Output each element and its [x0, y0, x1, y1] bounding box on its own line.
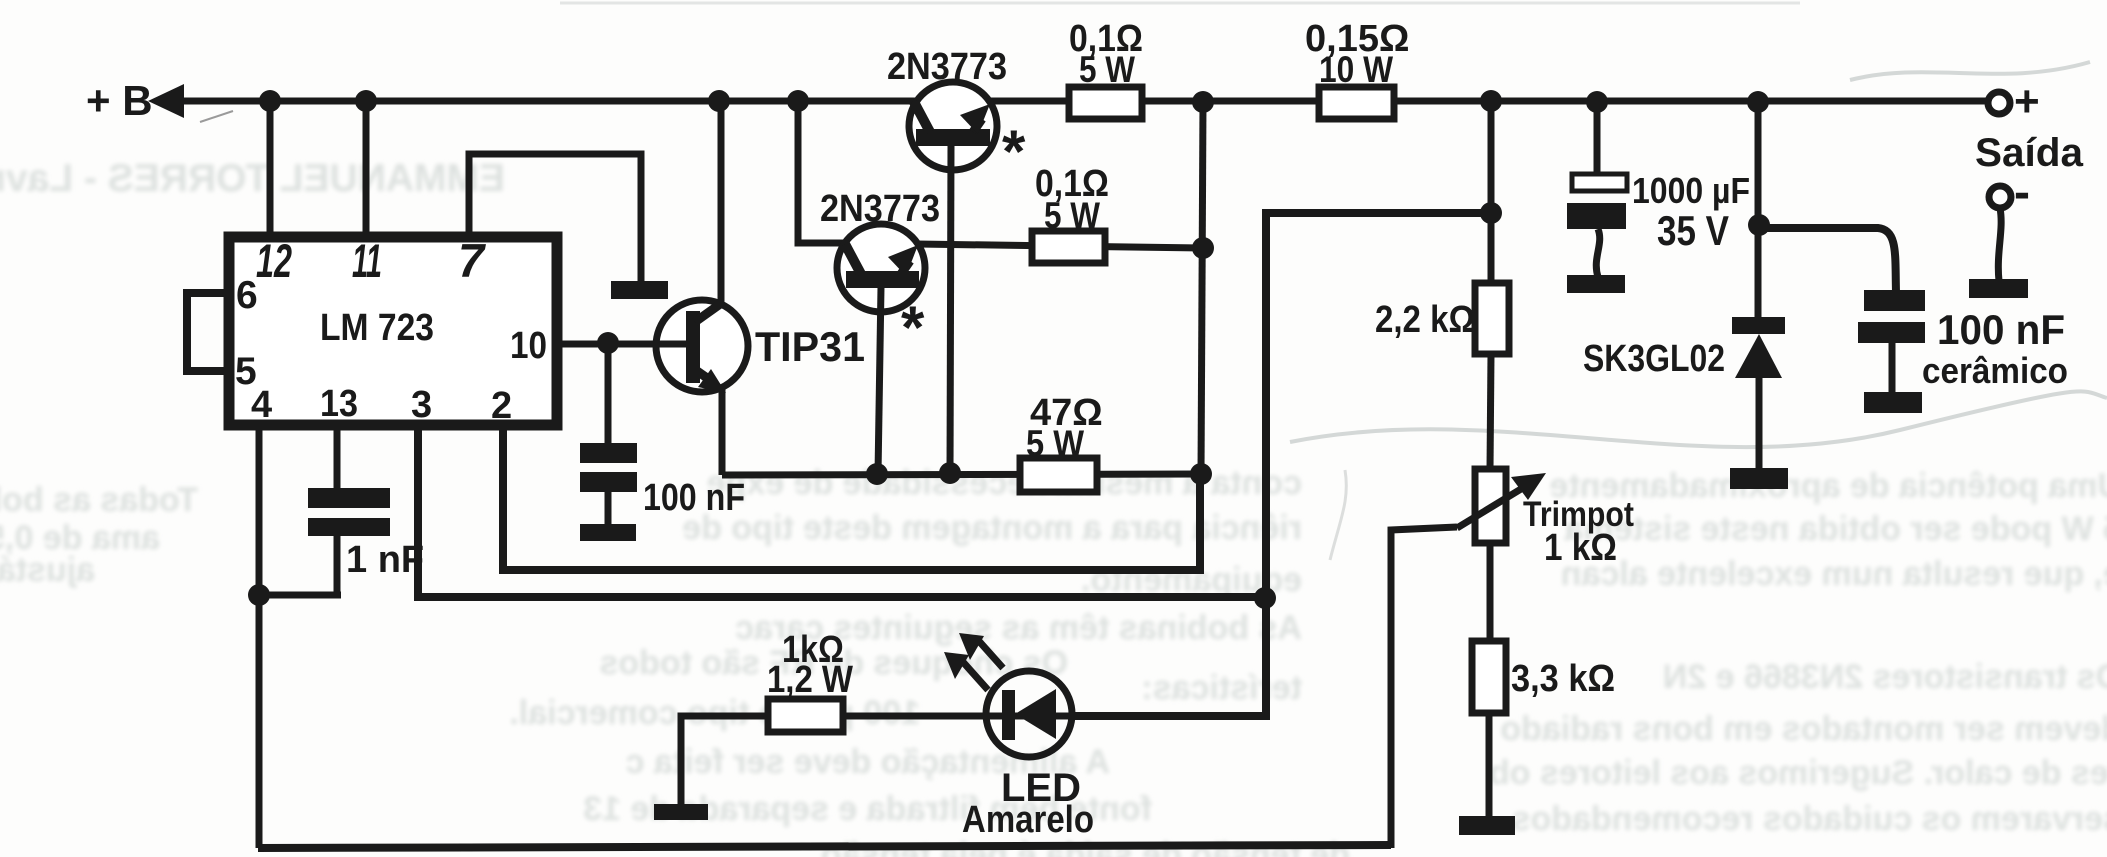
svg-text:riência para a montagem deste: riência para a montagem deste tipo de	[682, 509, 1302, 547]
svg-text:+ B: + B	[86, 77, 153, 124]
transistor Q2 2N3773 (lower)	[820, 188, 940, 361]
resistor 0,1 ohm 5W (lower)	[1032, 231, 1105, 263]
wire Q1 base drop	[950, 145, 951, 473]
svg-text:1 kΩ: 1 kΩ	[1544, 527, 1617, 569]
svg-text:35 V: 35 V	[1657, 207, 1729, 254]
svg-text:13: 13	[320, 383, 358, 425]
svg-text:3: 3	[411, 384, 432, 426]
wire Q2 collector feed	[798, 101, 846, 243]
wire ceramic cap branch	[1759, 228, 1896, 292]
node +B arrow	[148, 84, 184, 118]
node junction rail/1000uF	[1586, 91, 1608, 113]
wire pin5-pin6 loop	[187, 293, 224, 371]
ground (C4)	[1864, 392, 1922, 413]
ground (pin 7)	[611, 281, 668, 299]
node junction 2,2k/lineB	[1480, 202, 1502, 224]
wire pin4 to C2	[259, 592, 341, 599]
wire 2,2k top lead	[1488, 101, 1495, 283]
node junction TIP31 collector/rail	[708, 90, 730, 112]
svg-text:5 W: 5 W	[1026, 423, 1084, 464]
wire C1 bottom lead	[605, 492, 612, 526]
resistor 0,15 ohm 10W	[1319, 87, 1394, 119]
svg-text:ajustável.: ajustável.	[0, 551, 95, 589]
svg-text:2N3773: 2N3773	[887, 46, 1007, 88]
wire pin 7 to ground	[469, 154, 641, 283]
wire 2,2k to trimpot	[1490, 354, 1491, 469]
wire TIP31 collector riser	[718, 101, 725, 303]
svg-text:4: 4	[251, 384, 272, 426]
wire pin 2 sense	[503, 425, 1200, 570]
svg-text:*: *	[1002, 118, 1026, 185]
svg-text:1000 µF: 1000 µF	[1632, 170, 1750, 211]
wire 47ohm row	[722, 474, 1201, 475]
wire: top +B rail	[158, 98, 1988, 105]
svg-text:5 W pode ser obtida neste sist: 5 W pode ser obtida neste sistema	[1564, 510, 2107, 548]
svg-text:EMMANUEL TORRES - Lavras - M: EMMANUEL TORRES - Lavras - M	[0, 157, 505, 200]
wire C3 bottom lead	[1596, 229, 1599, 277]
wire pin 4 drop	[256, 425, 263, 848]
diode D1 SK3GL02	[1583, 317, 1785, 380]
resistor 2,2 kohm	[1475, 283, 1509, 354]
wire 1000uF top lead	[1594, 102, 1601, 176]
svg-text:TIP31: TIP31	[755, 323, 865, 370]
svg-text:5 W: 5 W	[1044, 195, 1100, 236]
svg-text:res de calor. Sugerimos aos le: res de calor. Sugerimos aos leitores ob	[1489, 754, 2107, 792]
wire line B	[1074, 213, 1491, 716]
wire output - lead	[1998, 208, 2001, 281]
svg-text:2,2 kΩ: 2,2 kΩ	[1375, 299, 1475, 341]
ground (LED branch)	[654, 804, 708, 820]
svg-text:e, que resulta num excelente a: e, que resulta num excelente alcan	[1561, 555, 2107, 593]
svg-text:11: 11	[352, 234, 382, 287]
ground (diode)	[1730, 468, 1788, 489]
node junction Q1 base/47 row	[939, 462, 961, 484]
wire LED branch left	[681, 716, 768, 804]
wire TIP31 emitter drop	[719, 389, 726, 475]
wire C4 bottom lead	[1889, 343, 1896, 394]
svg-text:-: -	[2014, 166, 2030, 219]
node junction rail/2,2k	[1480, 90, 1502, 112]
svg-text:*: *	[901, 294, 925, 361]
resistor 47 ohm 5W	[1020, 458, 1097, 492]
capacitor C4 100 nF ceramic	[1864, 290, 1925, 311]
svg-text:conta a mesma necessidade de e: conta a mesma necessidade de expe	[707, 464, 1302, 502]
capacitor C2 1 nF	[308, 488, 390, 508]
wire bottom rail	[258, 845, 1391, 848]
faint scan scratches	[1290, 391, 2107, 447]
resistor 3,3 kohm	[1472, 641, 1506, 713]
wire diode to ground	[1756, 378, 1763, 470]
LED D2 amarelo	[944, 633, 1094, 841]
ground (output)	[1969, 279, 2028, 298]
svg-text:100 nF: 100 nF	[1937, 306, 2065, 353]
svg-text:Amarelo: Amarelo	[962, 799, 1094, 841]
svg-text:SK3GL02: SK3GL02	[1583, 338, 1725, 380]
wire line A vertical	[1201, 102, 1203, 474]
wire C2 bottom lead	[334, 536, 341, 595]
node junction pin12/rail	[259, 90, 281, 112]
svg-text:LM 723: LM 723	[320, 307, 434, 349]
svg-text:3,3 kΩ: 3,3 kΩ	[1511, 658, 1615, 700]
op-amp U1 LM 723 box	[229, 237, 557, 425]
svg-text:+: +	[2014, 77, 2040, 126]
svg-text:1 nF: 1 nF	[346, 539, 424, 581]
resistor 0,1 ohm 5W (upper)	[1069, 87, 1142, 119]
wire pin 3 sense	[418, 425, 1265, 597]
node junction lineB/pin3	[1254, 587, 1276, 609]
svg-text:5 W: 5 W	[1079, 49, 1135, 90]
wire Q2 emitter row	[917, 244, 1203, 248]
node output + terminal	[1988, 92, 2010, 114]
svg-text:6: 6	[236, 274, 258, 317]
node junction pin4/C2	[248, 584, 270, 606]
svg-text:cerâmico: cerâmico	[1922, 350, 2068, 391]
node junction pin11/rail	[355, 90, 377, 112]
wire Q2 base drop	[878, 287, 881, 474]
svg-text:100 nF: 100 nF	[643, 477, 745, 519]
svg-text:10 W: 10 W	[1319, 49, 1393, 90]
node junction rail/diode	[1747, 91, 1769, 113]
wire trimpot wiper riser	[1391, 527, 1457, 848]
wire pin 12 riser	[267, 101, 274, 235]
transistor Q3 TIP31	[654, 300, 865, 393]
wire trimpot to 3,3k	[1487, 543, 1494, 641]
svg-text:Todas as bobinas são enroladas: Todas as bobinas são enroladas	[0, 481, 198, 519]
node junction pin10/C1	[597, 332, 619, 354]
node output - terminal	[1989, 186, 2011, 208]
wire pin 13 lead	[334, 425, 341, 490]
svg-text:devem ser montados em bons rad: devem ser montados em bons radiado	[1500, 710, 2107, 748]
wire 1k to LED	[843, 713, 1266, 720]
capacitor C1 100 nF	[580, 443, 637, 463]
ground (C3)	[1567, 275, 1625, 293]
svg-text:servarem os cuidados recomenda: servarem os cuidados recomendados	[1512, 800, 2107, 838]
wire 3,3k to ground	[1486, 713, 1493, 818]
trimpot 1 kohm	[1457, 469, 1634, 569]
ground (C1)	[580, 524, 636, 541]
svg-text:terísticas:: terísticas:	[1141, 669, 1302, 707]
resistor 1 kohm 1,2W	[768, 699, 843, 732]
transistor Q1 2N3773 (upper)	[887, 46, 1026, 185]
node junction Q2 feed/rail	[787, 90, 809, 112]
node junction rail/lineA	[1192, 91, 1214, 113]
node junction Q2 base/47 row	[866, 463, 888, 485]
node junction lineA/47ohm row	[1190, 463, 1212, 485]
svg-text:2N3773: 2N3773	[820, 188, 940, 230]
wire C1 top lead	[605, 343, 612, 443]
capacitor C3 1000 uF 35V	[1572, 174, 1627, 191]
node junction diode/ceramic branch	[1748, 214, 1770, 236]
wire pin 11 riser	[363, 101, 370, 235]
svg-text:Os transistores 2N3866 e 2N: Os transistores 2N3866 e 2N	[1663, 658, 2107, 696]
svg-text:10: 10	[510, 325, 547, 367]
wire diode top lead	[1755, 102, 1762, 318]
svg-text:12: 12	[256, 234, 292, 287]
wire pin 10 to TIP31 base	[562, 341, 686, 348]
svg-text:2: 2	[491, 385, 512, 427]
node junction lineA/row2	[1192, 237, 1214, 259]
svg-text:1,2 W: 1,2 W	[767, 659, 853, 701]
svg-text:7: 7	[458, 234, 486, 287]
ground (3,3k)	[1459, 816, 1515, 835]
